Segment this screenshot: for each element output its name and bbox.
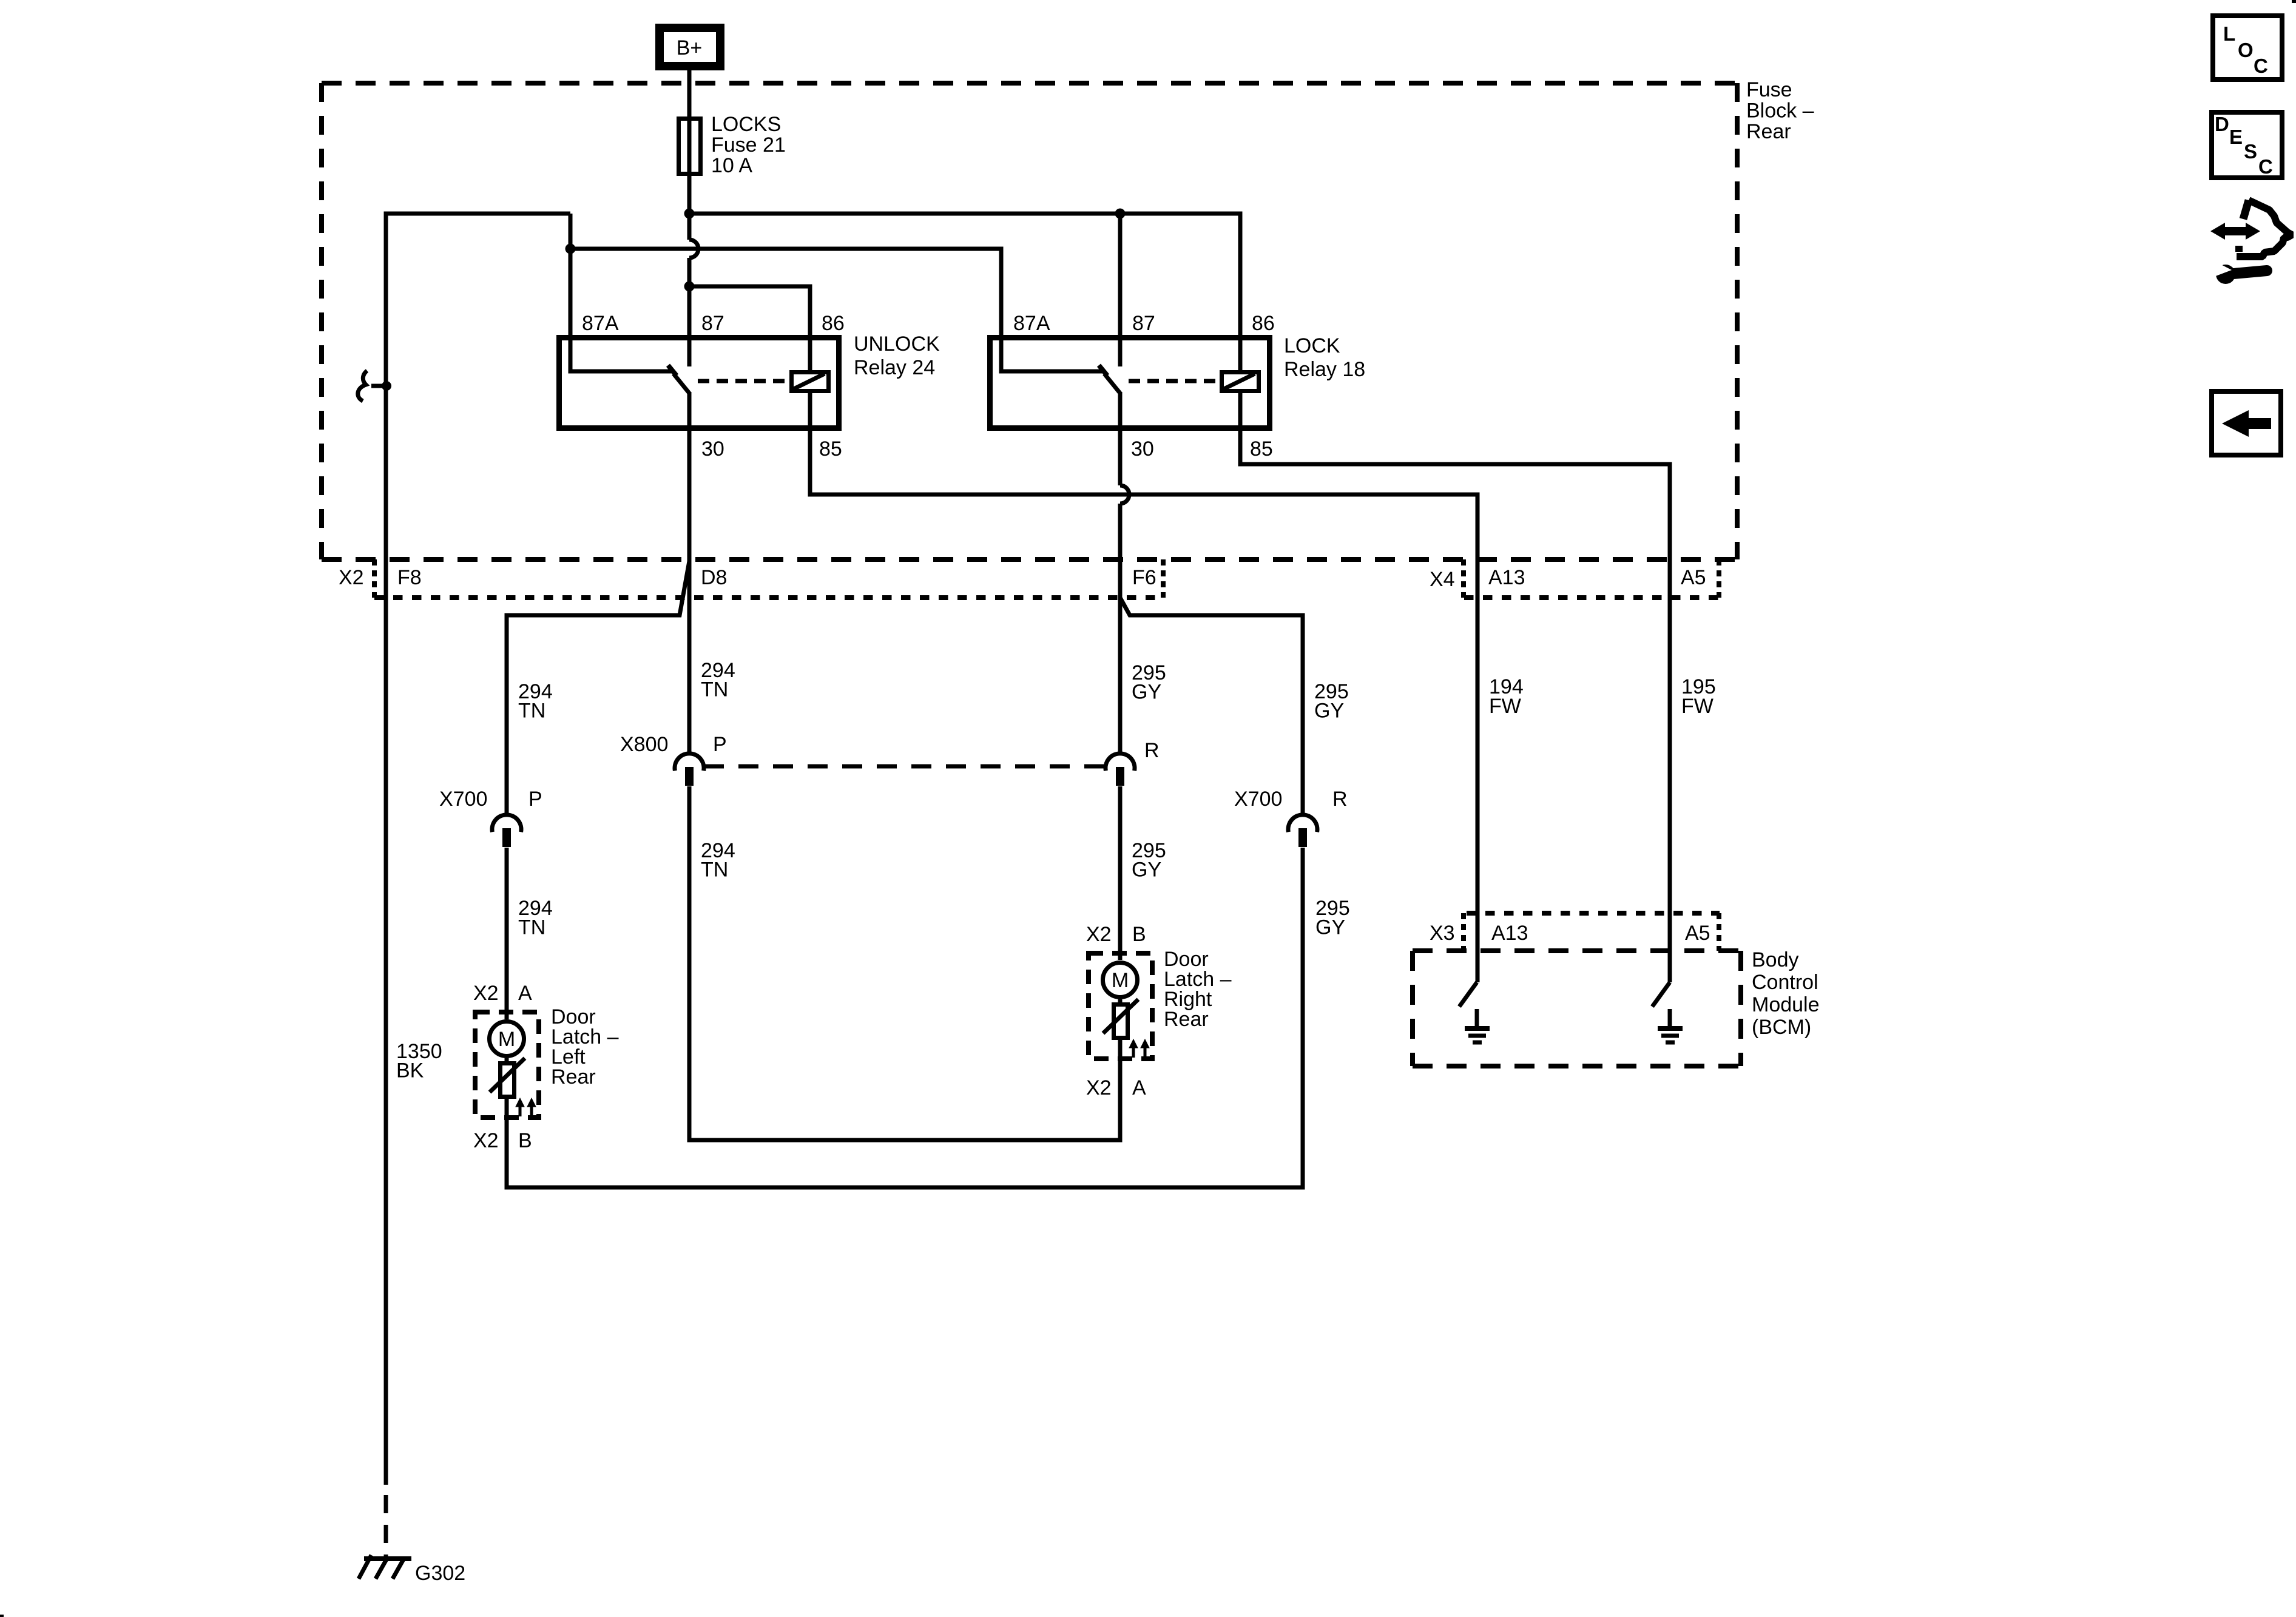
svg-text:BK: BK: [396, 1059, 424, 1082]
svg-text:A5: A5: [1685, 922, 1710, 945]
svg-text:87A: 87A: [582, 312, 619, 335]
svg-text:Rear: Rear: [551, 1065, 596, 1089]
svg-text:X2: X2: [1086, 923, 1112, 946]
svg-text:LOCK: LOCK: [1284, 334, 1340, 357]
svg-text:A: A: [1132, 1076, 1146, 1099]
svg-text:X700: X700: [439, 788, 487, 811]
svg-text:R: R: [1144, 739, 1160, 762]
svg-text:Relay 24: Relay 24: [854, 356, 935, 379]
svg-text:TN: TN: [701, 678, 728, 701]
svg-text:X2: X2: [339, 566, 364, 589]
svg-text:UNLOCK: UNLOCK: [854, 333, 940, 356]
svg-text:10 A: 10 A: [711, 154, 752, 177]
svg-text:Block –: Block –: [1746, 100, 1814, 123]
svg-text:F8: F8: [397, 566, 422, 589]
svg-text:X800: X800: [620, 733, 668, 756]
svg-text:Module: Module: [1752, 993, 1820, 1016]
svg-text:86: 86: [1252, 312, 1275, 335]
svg-text:A13: A13: [1491, 922, 1528, 945]
svg-text:M: M: [1112, 969, 1129, 992]
svg-text:GY: GY: [1314, 700, 1344, 723]
svg-text:FW: FW: [1681, 695, 1714, 718]
svg-text:GY: GY: [1132, 681, 1161, 704]
svg-text:O: O: [2238, 39, 2254, 61]
svg-text:A: A: [518, 982, 532, 1005]
svg-text:A13: A13: [1488, 566, 1525, 589]
svg-text:30: 30: [701, 437, 724, 461]
svg-text:(BCM): (BCM): [1752, 1016, 1811, 1039]
svg-text:LOCKS: LOCKS: [711, 113, 781, 136]
svg-text:87A: 87A: [1013, 312, 1050, 335]
svg-text:D: D: [2215, 113, 2229, 135]
svg-text:S: S: [2244, 140, 2257, 163]
svg-text:B: B: [1132, 923, 1146, 946]
svg-text:X3: X3: [1430, 922, 1455, 945]
svg-text:Fuse: Fuse: [1746, 78, 1792, 101]
svg-text:TN: TN: [701, 859, 728, 882]
svg-text:87: 87: [1132, 312, 1155, 335]
svg-text:A5: A5: [1681, 566, 1706, 589]
svg-text:X700: X700: [1234, 788, 1282, 811]
svg-text:Body: Body: [1752, 948, 1799, 971]
svg-text:Rear: Rear: [1746, 120, 1791, 143]
svg-text:TN: TN: [518, 700, 545, 723]
svg-text:C: C: [2258, 155, 2273, 178]
svg-text:X4: X4: [1430, 568, 1455, 591]
svg-text:P: P: [528, 788, 542, 811]
svg-text:86: 86: [822, 312, 845, 335]
svg-text:R: R: [1332, 788, 1348, 811]
svg-text:85: 85: [819, 437, 842, 461]
svg-text:TN: TN: [518, 916, 545, 939]
svg-text:Control: Control: [1752, 971, 1818, 994]
svg-text:FW: FW: [1489, 695, 1521, 718]
svg-text:M: M: [498, 1028, 515, 1051]
svg-text:B+: B+: [677, 36, 703, 59]
svg-text:X2: X2: [1086, 1076, 1112, 1099]
svg-text:X2: X2: [473, 1129, 499, 1152]
svg-text:GY: GY: [1132, 859, 1161, 882]
svg-text:Rear: Rear: [1164, 1008, 1209, 1031]
svg-text:87: 87: [701, 312, 724, 335]
svg-text:P: P: [713, 733, 727, 756]
svg-text:G302: G302: [415, 1562, 465, 1585]
svg-text:B: B: [518, 1129, 532, 1152]
svg-text:X2: X2: [473, 982, 499, 1005]
svg-text:Relay 18: Relay 18: [1284, 358, 1365, 381]
svg-text:E: E: [2229, 126, 2243, 148]
svg-text:85: 85: [1250, 437, 1273, 461]
svg-text:L: L: [2223, 22, 2235, 45]
svg-text:D8: D8: [701, 566, 727, 589]
svg-text:C: C: [2254, 55, 2268, 77]
svg-text:Fuse 21: Fuse 21: [711, 133, 786, 157]
svg-text:GY: GY: [1315, 916, 1345, 939]
svg-text:30: 30: [1131, 437, 1154, 461]
svg-text:F6: F6: [1132, 566, 1156, 589]
